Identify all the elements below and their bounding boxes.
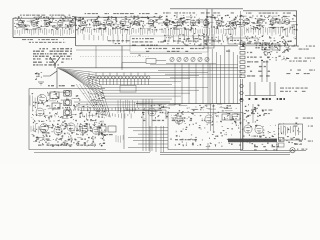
tube V8	[106, 20, 112, 26]
box around R50	[279, 124, 303, 140]
wire drop x96	[95, 46, 97, 68]
label mid under2	[115, 43, 120, 44]
wire long vertical A	[206, 9, 208, 46]
label right cluster	[254, 146, 279, 147]
label right low	[251, 110, 272, 111]
wire streaks band B	[154, 16, 296, 30]
connector pin J1-5	[240, 61, 268, 64]
label far right title	[246, 13, 291, 14]
box K1	[124, 110, 166, 149]
component clutter band A	[14, 16, 155, 31]
wire band bottom left	[13, 37, 76, 39]
tube V9	[120, 20, 126, 26]
wire dotted link	[80, 56, 150, 58]
component cluster module2	[170, 118, 243, 147]
wire top rail right	[170, 8, 243, 10]
tube V19	[257, 19, 263, 25]
label right mid4	[289, 61, 311, 62]
tube V1	[18, 21, 24, 27]
label right under	[163, 41, 221, 42]
label TB1	[230, 40, 256, 41]
wire mid rail B	[158, 70, 242, 72]
relay K11	[272, 44, 280, 50]
note line 5	[33, 58, 72, 59]
wire drop right	[252, 104, 254, 123]
component cluster right low	[244, 104, 265, 122]
wire vertical pair mid	[211, 104, 214, 131]
label module2 a	[175, 139, 197, 140]
label meter	[297, 149, 307, 150]
wire top bus mid	[76, 16, 162, 18]
tube V11	[148, 20, 154, 26]
tube V20	[270, 19, 276, 25]
tube V35	[148, 108, 156, 116]
table row 1	[132, 38, 154, 39]
label right mid	[288, 46, 315, 47]
wire fan upper	[58, 69, 105, 100]
tube V6	[80, 20, 86, 26]
tube V2	[31, 21, 37, 27]
wire band bottom right	[162, 45, 238, 47]
tube V5	[69, 21, 75, 27]
wire mid rail D	[170, 76, 242, 78]
wire fan lower	[76, 84, 111, 118]
label under band left2	[29, 42, 66, 43]
label right of grid	[226, 51, 230, 52]
wire right verticals	[250, 82, 275, 96]
table box	[130, 36, 208, 52]
wire lower verticals	[150, 126, 164, 152]
note line 3	[33, 53, 72, 54]
transformer T3	[64, 91, 71, 97]
ground	[38, 82, 44, 85]
wire band bottom mid2	[76, 49, 130, 51]
wire meter line	[240, 149, 306, 151]
label mid under	[108, 40, 130, 41]
label frame mid	[120, 86, 136, 93]
tube V3	[44, 21, 50, 27]
label arrow right2	[299, 141, 313, 142]
wire sheet corner	[296, 11, 298, 46]
resistor bank R50	[281, 125, 298, 135]
note line 4	[33, 56, 72, 57]
wire streaks band A	[15, 17, 154, 30]
wire band bottom mid	[76, 45, 162, 47]
connector pin J1-6	[240, 66, 266, 69]
table row 2	[132, 41, 164, 42]
tube V15	[203, 20, 209, 26]
tube V34b	[80, 126, 88, 134]
resistor bank top left	[15, 29, 74, 37]
label right mid3	[286, 58, 315, 59]
meter M1	[290, 148, 295, 153]
wire long vertical B	[211, 9, 213, 46]
wire mid rail C	[165, 73, 242, 75]
connector pin J1-8	[240, 75, 270, 78]
connector pin J1-4	[240, 56, 270, 59]
label mid link	[138, 55, 140, 56]
label above table	[167, 51, 188, 52]
module box	[29, 89, 150, 153]
wire lower bus	[128, 128, 168, 148]
component cluster module B	[32, 120, 106, 147]
component drops right	[165, 34, 232, 44]
tube V34c	[92, 127, 100, 135]
tube V36	[175, 116, 183, 124]
connector pin J1-7	[240, 70, 270, 73]
resistor bank R35	[116, 135, 123, 143]
component cluster right mid	[260, 41, 289, 61]
capacitor C41	[108, 126, 116, 132]
table row 3r	[185, 45, 201, 46]
table row 4r	[172, 48, 204, 49]
label under tubes	[243, 136, 262, 137]
wire sheet left edge	[240, 11, 242, 46]
connector pin J1-2	[240, 47, 267, 50]
wire far right bottom	[242, 45, 296, 47]
connector pin J1-1	[240, 42, 270, 45]
wire main feed	[57, 67, 238, 69]
connector J2 label2	[286, 73, 309, 74]
relay K10	[262, 44, 270, 50]
tube V7	[93, 20, 99, 26]
battery BT1	[35, 72, 42, 80]
capacitor row C20s	[87, 73, 150, 86]
label right note2	[280, 91, 306, 92]
resistor bank top mid	[78, 28, 156, 37]
label module bottom	[38, 145, 96, 146]
connector pin J1-3	[240, 51, 270, 54]
resistor bank R32	[77, 125, 82, 134]
tube V32	[40, 124, 49, 133]
resistor bank R30	[30, 95, 38, 111]
label right low2	[251, 113, 270, 114]
tube V38	[244, 125, 252, 133]
wire stub left module	[56, 68, 58, 88]
tube V4	[57, 21, 63, 27]
tube V14	[190, 20, 196, 26]
wire bottom rail B	[160, 154, 290, 156]
component cluster right bottom	[247, 122, 302, 146]
relay box K12	[204, 40, 214, 48]
resistor bank R31	[31, 124, 41, 133]
module box 2	[168, 113, 243, 150]
label C60a	[291, 139, 306, 140]
capacitor C60	[279, 138, 285, 148]
label gap	[98, 134, 113, 135]
tube V37	[205, 115, 213, 123]
transformer T1	[50, 92, 59, 99]
label strip header mid	[85, 13, 158, 14]
tube V34	[67, 123, 75, 131]
capacitor C40	[98, 126, 106, 132]
wire bar drop	[276, 142, 278, 151]
note line 2	[33, 51, 72, 52]
note line 7	[33, 64, 59, 65]
component cluster module A	[31, 91, 105, 121]
component clutter band B	[154, 15, 297, 31]
transformer T4	[64, 100, 71, 106]
tube V12	[164, 20, 170, 26]
wire vertical bundle	[143, 99, 152, 151]
label strip header left	[20, 15, 70, 16]
antenna E1	[50, 57, 60, 68]
wire streaks module	[38, 92, 104, 142]
wire bottom mid bus	[136, 103, 240, 105]
label bottom mid	[143, 120, 205, 121]
label under table	[146, 51, 149, 52]
ground module2	[206, 143, 210, 149]
wire mid rail A	[150, 64, 238, 66]
tube V31	[36, 108, 44, 116]
tube V30	[37, 94, 46, 103]
label C60b	[294, 144, 302, 145]
tube V21	[284, 19, 290, 25]
wire streaks bottom mid	[139, 104, 238, 118]
switch wafer row S1	[170, 57, 209, 61]
wire right cross	[245, 95, 276, 97]
wire bus harness	[74, 73, 208, 111]
wire sheet top right	[243, 10, 297, 12]
tube V18	[244, 19, 250, 25]
wire bottom rail A	[160, 152, 290, 154]
tube V33	[54, 127, 62, 135]
capacitor stub row A	[78, 107, 136, 112]
label under band left	[22, 39, 64, 40]
label module mid	[36, 139, 86, 140]
component clutter band right low	[164, 33, 236, 45]
label strip header right	[163, 12, 234, 13]
terminal row right edge	[240, 84, 243, 101]
terminal E5	[264, 52, 268, 56]
label right low3	[296, 118, 314, 119]
table row 1r	[179, 38, 204, 39]
connector J2 label	[290, 70, 315, 71]
relay K6	[232, 114, 240, 120]
table row 4	[145, 48, 167, 49]
label module2 b	[0, 0, 1, 1]
wire under table	[130, 53, 202, 55]
switch row bus	[166, 63, 216, 65]
tube V39	[255, 125, 263, 133]
label right cluster2	[254, 149, 277, 150]
table row 3	[132, 45, 158, 46]
resistor bank R40	[118, 100, 137, 114]
label above module	[48, 85, 75, 86]
transformer T2	[52, 103, 60, 109]
relay K5	[222, 114, 230, 120]
tube V10	[134, 20, 140, 26]
wire frame mid	[75, 17, 77, 46]
wire bus drops	[175, 46, 237, 104]
label arrow right1	[293, 126, 313, 127]
box bottom-mid corner	[122, 59, 166, 71]
note line 6	[33, 62, 64, 63]
label right note	[280, 88, 308, 89]
resistor bank top right	[162, 28, 235, 36]
wire top bus left	[13, 17, 76, 19]
table row 2r	[182, 41, 197, 42]
tube V17	[230, 20, 236, 26]
switch S2	[43, 71, 57, 76]
component cluster bottom mid	[138, 105, 238, 120]
component drops mid	[84, 34, 127, 44]
wire vertical right pair	[241, 60, 268, 150]
label right mid2	[288, 49, 309, 50]
label bold standard	[240, 98, 285, 100]
wire frame left	[12, 18, 14, 38]
transformer T5	[64, 110, 71, 116]
capacitor stub row B	[80, 113, 131, 118]
tube V16	[216, 20, 222, 26]
tube V13	[177, 20, 183, 26]
resistor bank far right	[242, 27, 294, 37]
wire drop x122	[121, 46, 123, 68]
delay line FL1	[228, 139, 277, 143]
terminal strip TB1	[228, 38, 258, 44]
note line 1	[39, 48, 72, 49]
component cluster far right	[242, 36, 296, 47]
